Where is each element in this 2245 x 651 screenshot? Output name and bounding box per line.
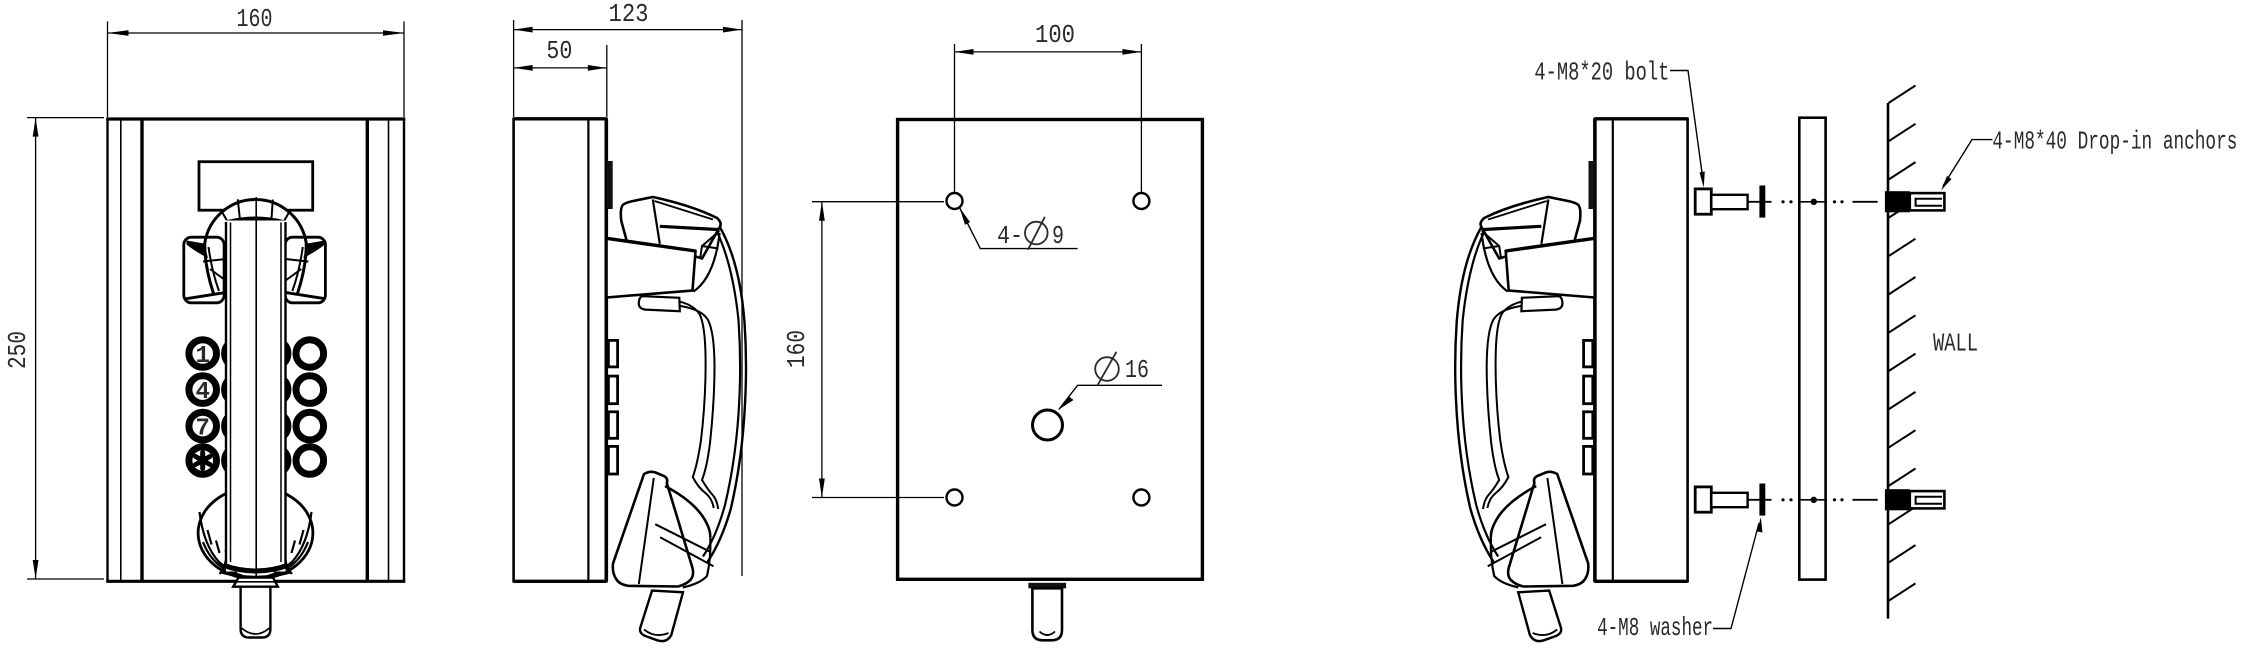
keypad circles [189,340,324,475]
dim 123 extension line right [741,20,743,576]
right hook corner wedge [303,241,325,259]
svg-text:4: 4 [195,379,209,406]
wall hatching [1889,86,1916,601]
left hook corner wedge [187,241,209,259]
front faceplate line right thick [366,119,369,581]
dome radial ticks [221,199,290,221]
gland inner ellipse [1040,632,1056,636]
mounting holes [947,193,963,209]
front faceplate line left thick [140,119,143,581]
dim 123 line [514,29,742,31]
dim 123 extension line left [513,20,515,117]
front body outer box [108,119,405,581]
earpiece dome outline [205,200,306,294]
right hook inner arcs [280,247,303,293]
dim 100 extension lines [954,44,956,193]
svg-text:4-M8*40 Drop-in anchors: 4-M8*40 Drop-in anchors [1992,127,2237,157]
dim 160 arrows [819,202,825,221]
front body bottom edge thick [106,580,405,583]
dim 160 arrows [108,30,129,36]
handle inner lines [230,223,232,563]
svg-text:4-M8 washer: 4-M8 washer [1597,613,1713,643]
front body top edge thick [106,117,405,120]
front flange line left thin [120,120,122,580]
svg-text:4-: 4- [997,221,1023,251]
dim 50 line [514,67,607,69]
mouthpiece sphere outline [198,487,313,579]
right hook [285,237,325,303]
dim 160 line [108,32,405,34]
bottom bolt assembly [1695,484,1944,516]
mirrored side phone [1455,119,1687,641]
handle top thick arc [227,219,285,223]
dim 160 line [821,202,823,498]
handle cup thick arc [224,566,288,572]
dim 50 extension line [606,45,608,117]
display window [199,162,313,211]
dim 250 arrows [33,118,39,137]
svg-text:250: 250 [3,331,33,369]
svg-text:123: 123 [609,0,649,29]
left hook [184,237,224,303]
leader 4-d9 [960,208,1078,249]
dim 250 extension lines [27,117,104,119]
cable hole [1033,410,1063,440]
front flange line right thin [388,120,390,580]
dim 160 extension lines [107,22,109,118]
side phone [514,119,746,641]
leader d16 [1059,385,1162,409]
svg-text:100: 100 [1035,20,1075,50]
sphere left band ticks [208,530,229,560]
svg-text:WALL: WALL [1933,329,1978,359]
handle cup flare [220,560,293,574]
wall line [1887,103,1890,619]
sphere right band arcs [269,512,312,576]
left hook shelf line [203,259,231,285]
mouthpiece collar trapezoid [233,578,278,587]
cable gland front [241,587,271,638]
sphere left band arcs [200,512,243,576]
handle cup lower arc [220,572,292,577]
handle white backer [226,221,286,572]
right hook bottom lip [281,292,326,299]
dim 123 arrows [514,27,533,33]
handle centre line [255,197,257,577]
mirrored side buttons [1584,340,1593,474]
svg-text:1: 1 [195,343,209,370]
svg-text:9: 9 [1052,221,1064,251]
dim 160 extension lines [812,201,944,203]
top bolt assembly [1695,186,1944,218]
left hook inner arcs [209,247,232,293]
dim 250 line [35,118,37,579]
svg-text:4-M8*20 bolt: 4-M8*20 bolt [1534,58,1669,88]
gland bottom ellipse arc [242,628,270,634]
earpiece dome white backer [205,199,307,296]
gland collar [1028,583,1066,589]
svg-text:16: 16 [1125,355,1149,385]
svg-text:7: 7 [195,415,209,442]
dim 100 line [955,51,1142,53]
left hook bottom lip [186,292,231,299]
handle edge lines [225,222,227,564]
gland tube back [1032,588,1062,640]
mounting plate [1799,118,1825,580]
dim 100 arrows [955,49,974,55]
back plate box [898,120,1203,580]
right hook shelf line [281,259,309,285]
side buttons [608,340,617,474]
collar inner line [236,581,275,583]
dim 50 arrows [514,65,533,71]
svg-text:50: 50 [546,36,572,66]
svg-text:160: 160 [782,330,812,368]
svg-text:160: 160 [237,4,273,34]
star key [196,453,210,469]
sphere right band ticks [283,530,304,560]
